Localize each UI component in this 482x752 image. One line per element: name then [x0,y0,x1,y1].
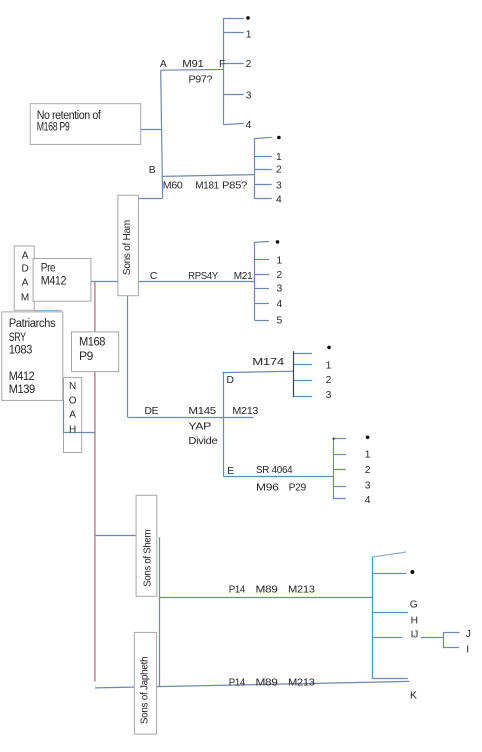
svg-text:3: 3 [365,481,371,492]
svg-text:P85?: P85? [222,181,248,192]
svg-text:P14: P14 [229,677,246,688]
svg-text:RPS4Y: RPS4Y [188,271,218,282]
wire Shem connector [94,535,136,537]
box Pre M412 [33,259,91,302]
bullet F [246,16,250,20]
wire D tick 1 [294,364,312,366]
wire C tick 3 [255,288,270,290]
wire C tick 1 [255,259,270,261]
svg-text:M213: M213 [232,406,258,417]
bullet B [277,136,281,140]
svg-text:M21: M21 [234,271,253,282]
wire DE branch horizontal [128,417,254,419]
wire IJ tick [373,637,403,639]
svg-text:M: M [21,293,29,304]
svg-text:P9: P9 [79,351,93,363]
wire Shem-Japheth subtree vertical [159,537,161,687]
wire right subtree bullet tick [373,573,407,575]
wire E tick 2 [334,469,347,471]
wire E tick bullet row [334,438,347,440]
svg-text:3: 3 [246,91,252,102]
svg-text:2: 2 [277,270,283,281]
wire C group vertical [254,242,256,320]
wire C tick 2 [255,274,270,276]
svg-text:1: 1 [365,450,371,461]
box No retention of M168 P9 [30,104,141,145]
wire E tick 4 [334,498,347,500]
wire D branch horizontal [223,371,294,372]
svg-text:2: 2 [365,465,371,476]
svg-text:1: 1 [276,152,282,163]
wire Pre-M412 to Ham junction [91,281,118,283]
wire right subtree top tick [373,552,407,557]
wire right subtree vertical [372,557,374,679]
wire F group vertical [223,18,225,125]
box M168 P9 [72,332,119,372]
svg-text:M181: M181 [195,181,219,192]
svg-text:Sons of Shem: Sons of Shem [143,530,154,587]
bullet C [276,240,280,244]
svg-text:IJ: IJ [411,630,419,641]
svg-text:1083: 1083 [9,345,32,357]
svg-text:SR 4064: SR 4064 [256,465,293,476]
wire G tick [373,612,409,614]
svg-text:Divide: Divide [188,436,218,447]
wire red trunk [94,282,96,682]
svg-text:E: E [227,466,234,477]
bullet E [366,436,370,440]
svg-text:M412: M412 [41,275,66,287]
svg-text:D: D [227,375,234,386]
svg-text:H: H [69,424,76,435]
svg-text:DE: DE [145,406,159,417]
wire IJ extension [421,637,444,639]
box Patriarchs [2,312,63,401]
wire E branch horizontal [224,476,334,478]
svg-text:K: K [410,691,417,702]
svg-text:M89: M89 [256,585,279,596]
svg-text:M89: M89 [256,677,279,688]
svg-text:G: G [410,600,418,611]
svg-text:1: 1 [246,29,252,40]
wire Shem branch horizontal [160,597,373,599]
bullet Shem [410,570,414,574]
wire Japheth branch horizontal [95,681,409,688]
wire right subtree bottom tick [373,678,408,680]
svg-text:M213: M213 [288,585,315,596]
svg-text:3: 3 [277,284,283,295]
wire C tick 4 [255,303,270,305]
svg-text:M168: M168 [79,336,105,348]
wire B tick 3 [254,184,271,186]
wire E tick 1 [334,454,347,456]
wire B tick 4 [254,198,271,200]
svg-text:A: A [160,59,167,70]
svg-text:No retention of: No retention of [37,110,102,122]
svg-text:4: 4 [276,195,282,206]
svg-text:3: 3 [276,181,282,192]
label ADAM letters [21,251,29,304]
svg-text:1: 1 [326,361,332,372]
wire B group vertical [254,139,256,200]
wire A-B vertical trunk [161,70,163,198]
wire NOAH elbow vertical [63,400,65,432]
wire F tick 4 [224,123,244,124]
wire F tick 3 [224,94,244,96]
wire I tick [444,647,460,649]
svg-text:Patriarchs: Patriarchs [9,318,56,330]
svg-text:P97?: P97? [189,74,213,85]
svg-text:M174: M174 [252,357,284,368]
svg-text:C: C [150,271,158,282]
svg-text:D: D [21,263,28,274]
wire D-E vertical [223,372,225,477]
svg-text:N: N [69,381,76,392]
svg-text:A: A [22,278,29,289]
box Sons of Shem [136,495,157,596]
wire D group vertical (black) [293,351,295,397]
wire A branch horizontal [161,69,224,72]
svg-text:B: B [149,165,156,176]
svg-text:P29: P29 [289,483,307,494]
wire C tick 5 [255,320,270,322]
wire Ham descend vertical [127,296,129,418]
svg-text:SRY: SRY [9,332,27,344]
wire B branch horizontal [162,175,254,177]
svg-text:Sons of Ham: Sons of Ham [122,220,133,275]
box Sons of Ham [118,195,138,296]
svg-text:M213: M213 [288,677,315,688]
wire J tick [444,632,460,634]
svg-text:1: 1 [277,255,283,266]
wire E tick 3 [334,486,347,488]
svg-text:M96: M96 [256,483,279,494]
svg-text:M412: M412 [9,371,35,383]
svg-text:2: 2 [326,375,332,386]
svg-text:M91: M91 [182,59,204,70]
wire NOAH elbow horizontal [63,432,95,434]
wire B tick 1 [254,156,271,158]
bullet D [327,346,331,350]
svg-text:M139: M139 [9,384,35,396]
svg-text:M145: M145 [188,406,216,417]
svg-text:H: H [411,615,418,626]
wire C tick bullet row [255,241,270,244]
wire connector trunk to Sons-of-Ham box [138,198,162,200]
wire JI bracket vertical [443,632,445,648]
svg-text:YAP: YAP [188,421,211,432]
box NOAH [64,378,82,453]
svg-text:A: A [22,251,29,262]
box Sons of Japheth [134,632,156,734]
svg-text:2: 2 [276,165,282,176]
wire D tick 2 [294,380,312,382]
svg-text:I: I [466,645,469,656]
svg-text:4: 4 [365,495,371,506]
wire connector No-retention box [141,129,162,131]
svg-text:3: 3 [326,390,332,401]
svg-text:2: 2 [246,59,252,70]
wire F tick 2 [224,63,244,65]
box ADAM [14,246,34,310]
svg-text:Pre: Pre [41,263,55,275]
svg-text:J: J [466,629,471,640]
svg-text:F: F [219,59,225,70]
svg-text:A: A [69,410,76,421]
svg-text:5: 5 [277,316,283,327]
wire D tick bullet row [294,353,312,355]
label NOAH letters [69,381,77,436]
svg-text:M60: M60 [163,181,183,192]
svg-text:Sons of Japheth: Sons of Japheth [140,656,151,724]
wire F tick bullet row [224,18,244,20]
wire C branch horizontal [138,281,254,283]
wire D tick 3 [294,396,312,398]
wire B tick bullet row [254,137,271,138]
wire F tick 1 [224,32,244,34]
wire B tick 2 [254,169,271,171]
wire connector under ADAM box [34,310,61,312]
svg-text:4: 4 [277,299,283,310]
svg-text:M168 P9: M168 P9 [37,121,70,133]
wire E group vertical [333,439,335,499]
svg-text:P14: P14 [229,585,246,596]
node E corner dot [333,438,335,440]
svg-text:4: 4 [246,120,252,131]
svg-text:O: O [69,395,77,406]
